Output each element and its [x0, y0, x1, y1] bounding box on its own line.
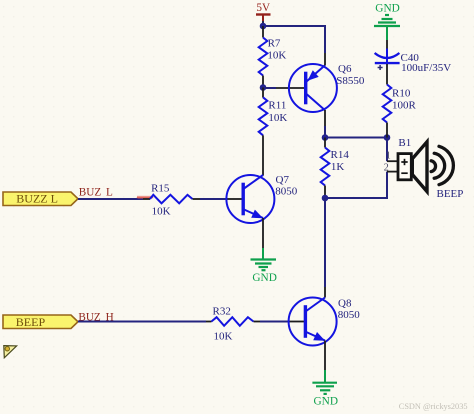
wire BEEP port to R32 — [78, 321, 206, 323]
compile mask marker triangle — [4, 346, 17, 358]
junction at R14 bottom node — [322, 195, 329, 202]
ground symbol above C40 (inverted) — [374, 15, 400, 40]
svg-text:10K: 10K — [268, 112, 287, 124]
svg-text:B1: B1 — [398, 137, 411, 149]
pin Q7 base — [226, 198, 242, 200]
wire R15 to Q7 base — [200, 198, 226, 200]
buzzer B1 — [384, 137, 464, 200]
svg-text:GND: GND — [375, 2, 399, 14]
svg-text:GND: GND — [314, 396, 338, 408]
resistor R14 — [321, 138, 350, 199]
svg-text:R32: R32 — [213, 306, 231, 318]
wire Q6 collector to speaker node — [324, 126, 326, 138]
svg-text:R11: R11 — [268, 100, 286, 112]
svg-text:1K: 1K — [331, 161, 345, 173]
transistor Q6 (PNP S8550) — [289, 64, 337, 112]
transistor Q8 (NPN 8050) — [289, 298, 337, 346]
svg-text:Q6: Q6 — [338, 63, 352, 75]
resistor R10 — [383, 85, 417, 138]
sound wave arcs of B1 — [431, 146, 453, 184]
resistor R11 — [259, 88, 288, 176]
wire R11 bottom to Q7 collector — [262, 135, 264, 175]
wire divider node to Q6 base — [263, 87, 276, 89]
svg-text:Q7: Q7 — [276, 174, 290, 186]
wire speaker node row — [325, 137, 387, 139]
port BEEP — [3, 315, 78, 329]
svg-text:BUZL: BUZL — [79, 187, 113, 199]
plus polarity mark of C40 — [378, 65, 383, 70]
capacitor C40 (polarized) — [375, 40, 452, 85]
pin Q7 emitter to ground — [262, 218, 264, 248]
ground stem at Q8 — [324, 370, 326, 383]
junction at 5V node — [260, 23, 267, 30]
svg-text:Q8: Q8 — [338, 297, 352, 309]
wire BUZZ L port to R15 — [78, 198, 143, 200]
svg-text:8050: 8050 — [338, 309, 361, 321]
pin Q6 emitter — [324, 53, 326, 65]
svg-text:GND: GND — [252, 272, 276, 284]
svg-text:1: 1 — [386, 151, 391, 162]
pin 2 of B1 — [387, 171, 398, 173]
error squiggle marker on BUZ L wire — [137, 196, 153, 198]
resistor R15 — [143, 183, 200, 218]
svg-text:5V: 5V — [256, 2, 270, 14]
svg-text:BUZZ L: BUZZ L — [16, 192, 58, 206]
wire 5V node to Q6 emitter — [263, 26, 325, 53]
ground symbol at Q8 emitter — [312, 383, 337, 394]
speaker horn of B1 — [412, 142, 427, 192]
svg-text:100R: 100R — [392, 100, 417, 112]
svg-text:R15: R15 — [151, 183, 170, 195]
svg-text:10K: 10K — [152, 205, 171, 217]
wire R32 to Q8 base — [260, 321, 288, 323]
pin Q6 collector — [324, 110, 326, 126]
svg-text:R14: R14 — [331, 149, 350, 161]
pin Q8 base — [288, 321, 304, 323]
svg-text:CSDN @rickys2035: CSDN @rickys2035 — [399, 402, 468, 411]
svg-text:10K: 10K — [214, 330, 233, 342]
svg-text:BEEP: BEEP — [437, 188, 464, 200]
port BUZZ L — [3, 192, 78, 206]
wire R14 bottom node to Q8 collector — [324, 198, 326, 287]
svg-text:R7: R7 — [268, 37, 281, 49]
pin Q8 collector — [324, 287, 326, 298]
transistor Q7 (NPN 8050) — [226, 175, 274, 223]
svg-text:BEEP: BEEP — [16, 315, 46, 329]
polarity marks of B1 — [401, 159, 407, 173]
svg-text:S8550: S8550 — [336, 75, 365, 87]
junction at R14 top node — [322, 134, 329, 141]
wire R10 bottom node to speaker pin 1 — [386, 138, 388, 162]
resistor R32 — [206, 306, 260, 343]
svg-text:R10: R10 — [392, 88, 411, 100]
pin Q8 emitter to ground — [324, 341, 326, 371]
wire speaker pin 2 to R14 bottom node — [325, 172, 387, 198]
power port 5V — [256, 2, 271, 25]
svg-text:10K: 10K — [267, 50, 286, 62]
ground symbol at Q7 emitter — [251, 260, 277, 271]
pin Q6 base — [276, 87, 305, 89]
svg-text:100uF/35V: 100uF/35V — [401, 62, 451, 74]
ground stem at Q7 — [262, 248, 264, 259]
resistor R7 — [259, 26, 287, 88]
speaker body of B1 — [398, 154, 411, 180]
junction at R10 bottom node — [384, 134, 391, 141]
junction at Q6 base divider node — [260, 84, 267, 91]
pin 1 of B1 — [387, 160, 398, 162]
svg-text:8050: 8050 — [275, 186, 298, 198]
svg-text:2: 2 — [384, 163, 389, 174]
